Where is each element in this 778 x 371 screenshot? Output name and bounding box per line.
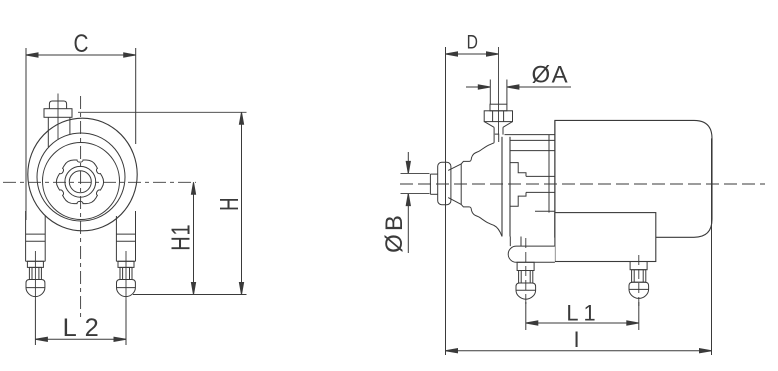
shaft top line — [526, 175, 555, 177]
volute casing outline (side view) — [461, 143, 502, 237]
motor front face — [554, 120, 556, 237]
top fitting cap — [49, 101, 66, 109]
svg-text:ØA: ØA — [531, 62, 569, 89]
adapter top line 1 — [505, 134, 555, 136]
top fitting centerline — [57, 94, 59, 141]
dimension H1 top arrowhead — [191, 182, 195, 194]
dimension H top arrowhead — [239, 112, 243, 124]
right view right foot ball — [629, 282, 649, 298]
adapter top line 2 — [510, 139, 555, 141]
top cone right slant — [503, 122, 513, 128]
right view left foot stem — [519, 271, 533, 284]
left leg inner line — [44, 216, 46, 261]
inlet port centerline extension — [498, 47, 500, 134]
right foot stem — [120, 267, 132, 279]
right foot centerline — [125, 251, 127, 300]
dimension A left tail — [466, 86, 490, 88]
label C — [74, 29, 89, 57]
bearing block upper step — [510, 163, 526, 177]
dimension B lower tail — [407, 194, 409, 253]
top clamp flange — [484, 111, 512, 122]
dimension L1 left arrowhead — [526, 321, 538, 325]
svg-text:ØB: ØB — [381, 212, 408, 253]
left foot stem — [29, 267, 41, 279]
label H1 — [166, 224, 195, 251]
dimension B upper tail — [407, 152, 409, 173]
dimension C left extension line — [25, 48, 27, 220]
right leg outer line — [135, 211, 137, 261]
dimension B down arrowhead — [406, 161, 410, 173]
dimension H1 line — [193, 182, 195, 294]
left leg outer line — [25, 211, 27, 261]
dimension A left arrowhead pointing right — [507, 85, 519, 89]
dimension H1 bottom arrowhead — [191, 283, 195, 295]
long left extension line (D and I) — [445, 47, 447, 355]
label H — [215, 198, 244, 211]
dimension C left arrowhead — [26, 53, 38, 57]
casing to bracket connector lines — [509, 237, 511, 247]
top fitting flange — [44, 109, 72, 118]
dimension C right arrowhead — [124, 53, 136, 57]
casing back plate line 1 — [501, 137, 503, 237]
junction box — [555, 213, 656, 262]
suction cone lower slant — [448, 198, 461, 205]
top inlet pipe left wall — [489, 80, 491, 105]
dimension I line — [446, 350, 712, 352]
dimension I right arrowhead — [700, 349, 712, 353]
left foot collar — [27, 261, 43, 267]
shaft bore circle — [69, 171, 91, 193]
impeller lobed profile — [56, 160, 103, 204]
svg-text:H: H — [215, 198, 244, 211]
motor body — [555, 120, 712, 237]
casing back plate line 2 — [509, 137, 511, 237]
motor front cap line — [548, 135, 550, 213]
dimension L2 right extension line — [125, 300, 127, 345]
shaft bottom line — [526, 191, 555, 193]
dimension L2 left extension line — [34, 300, 36, 345]
svg-text:C: C — [74, 29, 89, 57]
dimension I right extension line — [711, 138, 713, 355]
suction cone upper slant — [448, 164, 461, 171]
dimension H line — [241, 112, 243, 294]
label B — [381, 212, 408, 253]
dimension L2 right arrowhead — [114, 337, 126, 341]
suction stub top wall — [430, 173, 437, 175]
casing ring circle 2 — [37, 133, 125, 221]
bottom reference line (feet) — [133, 294, 247, 296]
casing neck right wall — [502, 127, 504, 134]
top fitting body left line — [47, 117, 49, 147]
top fitting body right line — [69, 117, 71, 134]
dimension L1 left extension line — [525, 302, 527, 330]
dimension I left arrowhead — [446, 349, 458, 353]
H top reference line — [78, 111, 247, 113]
suction ferrule — [438, 162, 451, 204]
vertical centerline (front view) — [80, 96, 82, 317]
right view left foot collar — [517, 262, 534, 270]
dimension H bottom arrowhead — [239, 283, 243, 295]
right view right foot centerline — [638, 255, 640, 306]
dimension L1 line — [526, 322, 639, 324]
left foot centerline — [34, 251, 36, 300]
shaft hub circle — [65, 166, 96, 197]
dimension B up arrowhead — [406, 194, 410, 206]
casing neck left wall — [493, 127, 495, 143]
horizontal centerline (front view) — [3, 181, 196, 183]
dimension L2 left arrowhead — [35, 337, 47, 341]
svg-text:L1: L1 — [566, 301, 600, 326]
right leg inner line — [115, 216, 117, 261]
dimension B top reference line — [401, 172, 430, 174]
pump casing outer circle (front view) — [28, 118, 137, 231]
right leg band lines — [116, 233, 135, 235]
svg-text:I: I — [573, 327, 579, 352]
dimension A right tail — [507, 86, 571, 88]
adapter top line 3 — [510, 150, 555, 152]
suction stub end — [429, 174, 431, 194]
dimension C right extension line — [135, 48, 137, 144]
right view left foot centerline — [525, 238, 527, 308]
right foot collar — [118, 261, 134, 267]
casing ring circle 3 — [43, 143, 120, 220]
top inlet pipe right wall — [506, 80, 508, 105]
main horizontal centerline (side view) — [400, 183, 765, 185]
left leg band lines — [26, 233, 46, 235]
label D — [467, 31, 478, 53]
top cone left slant — [484, 122, 494, 128]
left foot ball — [26, 280, 45, 297]
right foot ball — [117, 280, 136, 297]
svg-text:H1: H1 — [166, 224, 195, 251]
svg-text:D: D — [467, 31, 478, 53]
dimension L2 line — [35, 338, 126, 340]
top clamp flange inner ticks — [492, 111, 494, 122]
dimension D line — [446, 53, 499, 55]
bearing block lower step — [510, 192, 526, 206]
right view left foot ball — [516, 283, 536, 299]
support bracket — [508, 246, 555, 262]
dimension D right arrowhead — [487, 52, 499, 56]
right view right foot stem — [632, 270, 646, 283]
dimension D left arrowhead — [446, 52, 458, 56]
right view right foot collar — [630, 262, 647, 270]
casing neck interior step — [495, 134, 499, 142]
dimension L1 right arrowhead — [627, 321, 639, 325]
adapter bottom short line — [535, 210, 555, 212]
svg-text:L2: L2 — [63, 314, 107, 342]
dimension A right arrowhead pointing left — [478, 85, 490, 89]
dimension B bottom reference line — [401, 193, 430, 195]
top clamp ferrule — [490, 104, 507, 111]
dimension C line — [26, 54, 136, 56]
dimension L1 right extension line — [638, 302, 640, 330]
suction stub bottom wall — [430, 193, 437, 195]
